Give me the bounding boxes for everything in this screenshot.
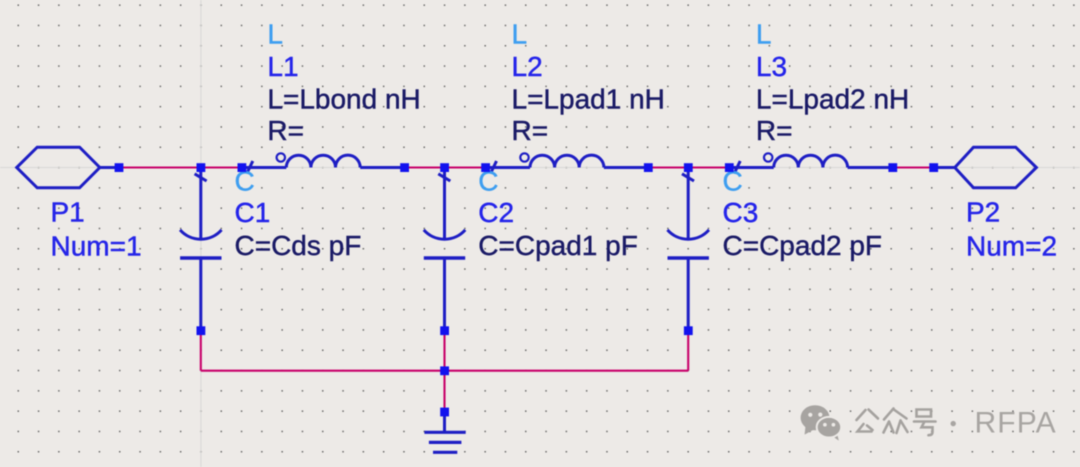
svg-text:L2: L2 (512, 51, 543, 82)
capacitor C3 (667, 171, 709, 331)
wire C3 bottom drop (687, 331, 689, 371)
svg-text:C=Cpad2 pF: C=Cpad2 pF (723, 230, 883, 261)
wire L1 to L2 (405, 166, 486, 168)
junction node C3 bottom (684, 326, 693, 335)
svg-text:L=Lpad2 nH: L=Lpad2 nH (756, 83, 909, 114)
junction node C1 bottom (197, 326, 206, 335)
svg-text:L: L (267, 19, 283, 50)
watermark wechat icon (801, 405, 842, 440)
svg-text:C=Cpad1 pF: C=Cpad1 pF (478, 230, 638, 261)
junction node L3 pin2 (888, 163, 897, 172)
port P2 (934, 147, 1037, 188)
wire L2 to L3 (648, 166, 729, 168)
svg-text:L: L (512, 19, 528, 50)
port P1 (17, 147, 119, 188)
junction node C2 bottom (440, 326, 449, 335)
svg-text:R=: R= (756, 115, 793, 146)
watermark text RFPA (975, 406, 1057, 439)
junction node L2 pin1 (481, 163, 490, 172)
port P1 label (51, 197, 142, 262)
junction node C3 top (684, 163, 693, 172)
capacitor C2 label (478, 166, 638, 261)
junction node P2 pin (929, 163, 938, 172)
junction node ground (440, 408, 449, 417)
ground (424, 414, 465, 452)
wire port P1 to L1 (119, 166, 242, 168)
inductor L1 label (267, 19, 420, 146)
inductor L2 label (512, 19, 665, 146)
svg-text:L: L (756, 19, 772, 50)
svg-text:L1: L1 (267, 51, 298, 82)
inductor L3 label (756, 19, 909, 146)
junction node L2 pin2 (644, 163, 653, 172)
junction node L1 pin2 (400, 163, 409, 172)
svg-text:L=Lbond nH: L=Lbond nH (267, 83, 420, 114)
junction node C1 top (197, 163, 206, 172)
junction node C2 top (440, 163, 449, 172)
svg-text:C=Cds pF: C=Cds pF (235, 230, 362, 261)
svg-text:R=: R= (512, 115, 549, 146)
capacitor C1 label (235, 166, 362, 261)
inductor L1 (242, 153, 405, 173)
junction node P1 pin (115, 163, 124, 172)
junction node L1 pin1 (238, 163, 247, 172)
svg-text:R=: R= (267, 115, 304, 146)
svg-text:C2: C2 (478, 197, 514, 228)
svg-text:P2: P2 (966, 197, 1000, 228)
wire C1 bottom drop (200, 331, 202, 371)
wire ground bus (201, 370, 688, 372)
inductor L3 (729, 153, 893, 173)
port P2 label (966, 197, 1057, 262)
wire L3 to port P2 (893, 166, 934, 168)
junction node bus center (440, 366, 449, 375)
svg-text:C1: C1 (235, 197, 271, 228)
capacitor C2 (424, 171, 466, 331)
svg-text:P1: P1 (51, 197, 85, 228)
inductor L2 (486, 153, 649, 173)
capacitor C3 label (723, 166, 883, 261)
svg-text:Num=1: Num=1 (51, 231, 142, 262)
svg-text:L3: L3 (756, 51, 787, 82)
wire C2 bottom drop (443, 331, 445, 412)
capacitor C1 (180, 171, 222, 331)
svg-text:Num=2: Num=2 (966, 231, 1057, 262)
watermark text (857, 409, 956, 436)
svg-text:L=Lpad1 nH: L=Lpad1 nH (512, 83, 665, 114)
svg-text:C3: C3 (723, 197, 759, 228)
svg-text:RFPA: RFPA (975, 406, 1057, 439)
junction node L3 pin1 (725, 163, 734, 172)
